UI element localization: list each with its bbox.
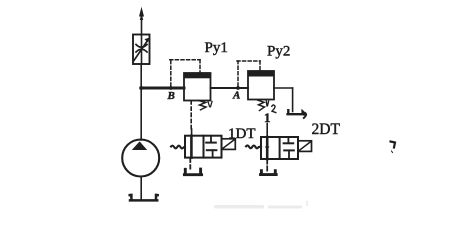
blocked port symbols in right position [210, 136, 212, 143]
wire: main vertical line from valve to pump [140, 64, 142, 140]
pressure valve Py1 [184, 73, 211, 101]
pressure valve Py2 [248, 71, 274, 100]
spring of valve 2DT [246, 145, 261, 148]
flow control valve (speed regulating valve) [133, 35, 150, 65]
pump [122, 140, 159, 177]
tank below valve 2DT [261, 171, 277, 175]
wire: pilot line of Py1 (dashed loop from B to top of Py1) [170, 60, 200, 86]
svg-text:2DT: 2DT [312, 121, 341, 138]
solenoid coil 1DT [222, 139, 236, 150]
svg-text:1DT: 1DT [228, 126, 256, 142]
node B junction dot [169, 86, 173, 90]
wire: drain line Py2 to valve 2DT (dashed) [266, 124, 268, 138]
svg-text:B: B [167, 90, 175, 102]
svg-text:Py2: Py2 [267, 43, 290, 59]
wire: branch line from Py1 to Py2 [211, 87, 249, 89]
arrow mark beside Py1 spring [208, 102, 212, 107]
spring mark 2 of Py2 [266, 101, 276, 113]
wire: Py2 outlet to tank [274, 88, 293, 112]
flow path in left position [266, 137, 269, 159]
solenoid valve 1DT [185, 136, 222, 158]
wire: valve 2DT to tank [266, 159, 268, 171]
tank below valve 1DT [184, 169, 201, 175]
blocked port symbols in right position [287, 137, 289, 143]
flow path in left position [190, 136, 193, 158]
faint remnants of cropped caption text [214, 201, 308, 209]
solenoid valve 2DT [261, 137, 298, 159]
solenoid coil 2DT [298, 141, 312, 152]
node A junction dot [236, 86, 240, 90]
spring of Py1 [199, 101, 207, 110]
wire: pilot line of Py2 (dashed loop from A to top of Py2) [237, 61, 260, 86]
wire: horizontal branch line to Py1 (bold) [141, 87, 184, 90]
wire: pump suction line [140, 176, 142, 200]
load arrow (flow direction arrow at top of main line) [139, 7, 144, 35]
tank at Py2 outlet [288, 110, 305, 114]
wire: valve 1DT to tank [189, 159, 191, 172]
svg-text:Py1: Py1 [205, 40, 228, 56]
wire: drain line Py1 to valve 1DT (dashed) [190, 101, 192, 136]
svg-text:A: A [232, 89, 240, 101]
spring of valve 1DT [171, 146, 185, 149]
node: junction of main line and branch line [139, 86, 143, 90]
comma mark left of 2DT label [304, 113, 306, 118]
spring of Py2 [258, 100, 265, 111]
tank (main reservoir) [130, 195, 158, 201]
stray ink mark [391, 142, 396, 148]
